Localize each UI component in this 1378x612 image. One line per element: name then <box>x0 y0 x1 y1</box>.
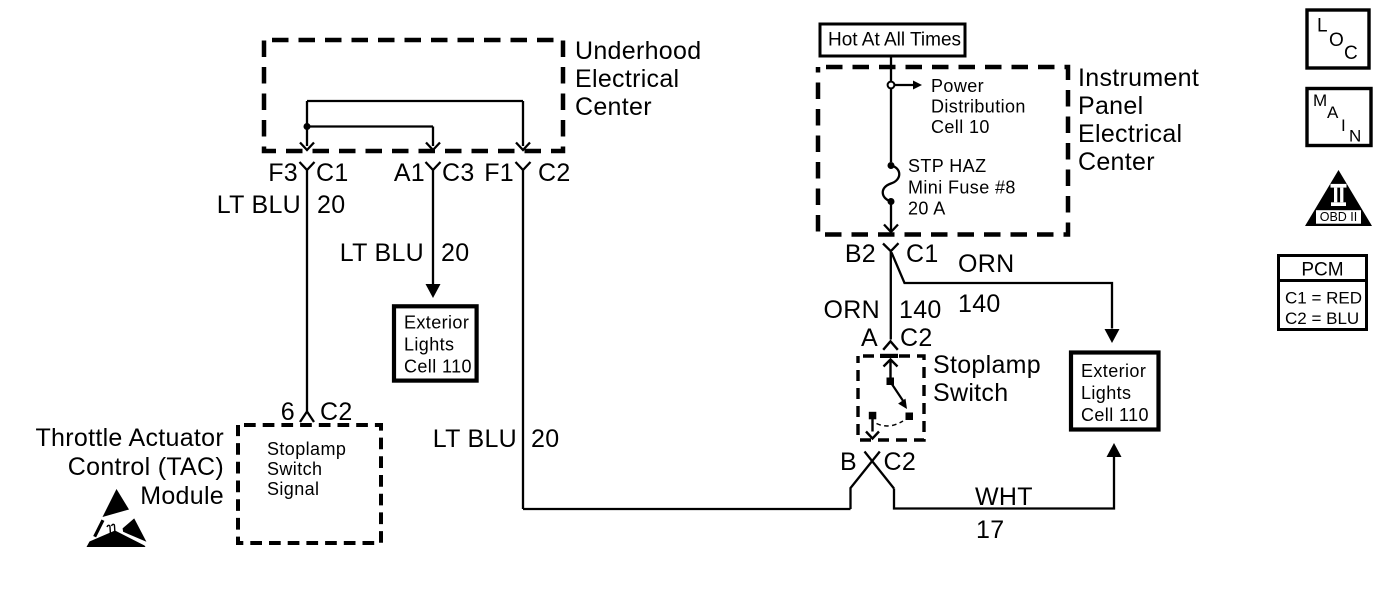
svg-text:ORN: ORN <box>958 250 1014 278</box>
svg-text:C2 = BLU: C2 = BLU <box>1285 309 1359 328</box>
svg-text:C1: C1 <box>906 240 939 268</box>
svg-text:Electrical: Electrical <box>1078 120 1182 148</box>
svg-text:Cell 10: Cell 10 <box>931 117 990 137</box>
svg-text:Mini Fuse #8: Mini Fuse #8 <box>908 178 1016 198</box>
svg-text:LT BLU: LT BLU <box>340 239 424 267</box>
svg-text:F1: F1 <box>484 159 514 187</box>
svg-text:Signal: Signal <box>267 479 319 499</box>
svg-text:M: M <box>1313 91 1327 110</box>
svg-text:C2: C2 <box>320 398 353 426</box>
svg-text:C2: C2 <box>884 448 917 476</box>
svg-text:17: 17 <box>976 516 1004 544</box>
svg-text:Power: Power <box>931 76 984 96</box>
svg-text:N: N <box>1349 127 1361 146</box>
svg-text:F3: F3 <box>268 159 298 187</box>
svg-text:20: 20 <box>317 191 345 219</box>
svg-text:C1 = RED: C1 = RED <box>1285 289 1362 308</box>
svg-text:C2: C2 <box>538 159 571 187</box>
svg-text:Throttle Actuator: Throttle Actuator <box>35 424 224 452</box>
svg-text:L: L <box>1317 16 1328 37</box>
svg-text:A: A <box>1327 103 1339 122</box>
svg-text:Center: Center <box>575 93 652 121</box>
svg-text:B2: B2 <box>845 240 876 268</box>
svg-text:20: 20 <box>441 239 469 267</box>
svg-text:Lights: Lights <box>1081 383 1131 403</box>
svg-text:Module: Module <box>140 482 224 510</box>
svg-text:Stoplamp: Stoplamp <box>933 351 1041 379</box>
svg-text:LT BLU: LT BLU <box>433 425 517 453</box>
svg-text:I: I <box>1341 116 1346 135</box>
svg-text:A1: A1 <box>394 159 425 187</box>
svg-text:OBD II: OBD II <box>1320 210 1358 224</box>
svg-text:Exterior: Exterior <box>404 313 469 333</box>
svg-text:WHT: WHT <box>975 483 1033 511</box>
svg-text:Hot At All Times: Hot At All Times <box>828 30 961 51</box>
svg-text:Lights: Lights <box>404 335 454 355</box>
svg-text:Exterior: Exterior <box>1081 361 1146 381</box>
svg-text:Switch: Switch <box>267 459 322 479</box>
svg-text:Underhood: Underhood <box>575 37 701 65</box>
svg-text:STP HAZ: STP HAZ <box>908 156 986 176</box>
svg-text:140: 140 <box>899 296 942 324</box>
svg-text:Electrical: Electrical <box>575 65 679 93</box>
svg-text:Control (TAC): Control (TAC) <box>68 453 224 481</box>
svg-text:140: 140 <box>958 290 1001 318</box>
svg-text:PCM: PCM <box>1301 260 1343 281</box>
svg-text:20: 20 <box>531 425 559 453</box>
svg-text:Distribution: Distribution <box>931 97 1026 117</box>
svg-text:O: O <box>1329 30 1344 51</box>
svg-text:C1: C1 <box>316 159 349 187</box>
svg-text:LT BLU: LT BLU <box>217 191 301 219</box>
svg-text:Panel: Panel <box>1078 92 1143 120</box>
svg-text:A: A <box>861 324 878 352</box>
svg-text:Switch: Switch <box>933 379 1008 407</box>
svg-text:ORN: ORN <box>824 296 880 324</box>
svg-text:Stoplamp: Stoplamp <box>267 439 346 459</box>
svg-text:6: 6 <box>281 398 295 426</box>
svg-text:C3: C3 <box>442 159 475 187</box>
svg-text:Cell 110: Cell 110 <box>404 357 472 377</box>
svg-text:20 A: 20 A <box>908 199 946 219</box>
svg-text:B: B <box>840 448 857 476</box>
svg-text:C2: C2 <box>900 324 933 352</box>
svg-text:C: C <box>1344 43 1358 64</box>
svg-text:Cell 110: Cell 110 <box>1081 405 1149 425</box>
svg-text:Center: Center <box>1078 148 1155 176</box>
svg-text:Instrument: Instrument <box>1078 64 1199 92</box>
